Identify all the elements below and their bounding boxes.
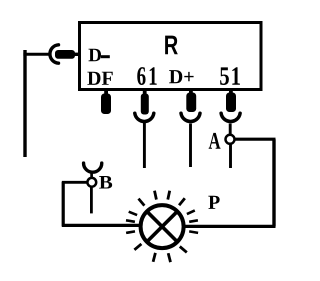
wire D- to left xyxy=(23,53,49,56)
wire 51 to node A xyxy=(229,124,232,136)
label DF xyxy=(87,72,112,85)
label A xyxy=(209,133,221,149)
terminal pin 61 (pill) xyxy=(141,88,149,115)
label D- xyxy=(89,49,101,61)
wire node B to left xyxy=(62,181,87,184)
node A (circle) xyxy=(226,135,235,144)
wire bottom left to lamp xyxy=(62,224,141,227)
socket arc D- xyxy=(50,45,59,63)
wire bottom right to lamp xyxy=(185,225,276,228)
label B xyxy=(99,176,112,189)
wire from D+ xyxy=(189,124,192,168)
label R xyxy=(165,36,178,55)
lamp P (circle with cross) xyxy=(141,205,184,248)
label 51 xyxy=(220,67,240,85)
wire right vertical xyxy=(272,139,275,226)
label P xyxy=(208,196,219,209)
terminal pin 51 (pill) xyxy=(226,88,236,112)
wire left loop vertical xyxy=(62,182,65,227)
node B (circle) xyxy=(87,178,96,187)
socket arc 61 xyxy=(135,113,154,121)
label 61 xyxy=(137,67,156,85)
terminal pin D- (pill) xyxy=(55,50,80,59)
wire stub below A xyxy=(229,145,232,169)
socket arc D+ xyxy=(181,113,200,121)
socket arc 51 xyxy=(221,113,240,121)
wire stub below B xyxy=(90,187,93,213)
stem arc B to node B xyxy=(90,173,93,179)
lamp rays xyxy=(126,191,198,262)
wire node A to right xyxy=(235,138,276,141)
terminal pin DF (pill) xyxy=(101,88,111,114)
wire from 61 xyxy=(143,123,146,168)
regulator box R xyxy=(80,23,262,90)
socket arc B xyxy=(84,163,102,172)
wire left vertical xyxy=(23,50,26,157)
terminal pin D+ (pill) xyxy=(186,88,196,112)
label D+ xyxy=(169,70,193,83)
